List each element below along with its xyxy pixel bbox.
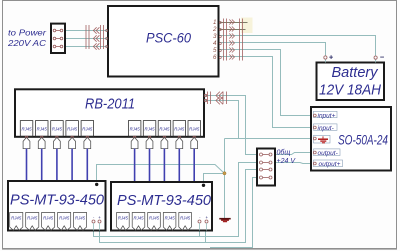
svg-text:RB-2011: RB-2011 bbox=[85, 97, 135, 113]
right PSU sub-boxes RJ45 bbox=[117, 213, 192, 231]
connector X1 4-row bbox=[257, 149, 275, 186]
wire: bus row4 bbox=[210, 178, 257, 248]
svg-text:3: 3 bbox=[213, 33, 217, 40]
RB bottom pins, plugs and cables group1 bbox=[23, 136, 91, 181]
wire: connector row2 to SO output+ bbox=[275, 163, 313, 164]
connector pair symbol right of PSC-60 bbox=[224, 19, 243, 61]
RB-2011 box A1 bbox=[15, 89, 204, 137]
svg-text:RJ45: RJ45 bbox=[27, 216, 38, 221]
svg-text:2: 2 bbox=[212, 26, 217, 33]
svg-text:+24 V: +24 V bbox=[277, 158, 297, 165]
RB-2011 RJ45 sub-boxes group1 bbox=[20, 121, 93, 137]
svg-text:RJ45: RJ45 bbox=[144, 127, 155, 132]
svg-text:RJ45: RJ45 bbox=[75, 216, 86, 221]
stub area tint bbox=[241, 18, 253, 34]
svg-text:RJ45: RJ45 bbox=[174, 127, 185, 132]
svg-text:output-: output- bbox=[318, 150, 339, 157]
svg-text:0бщ: 0бщ bbox=[277, 149, 291, 157]
wire: chassis net horizontal to SO pin3 bbox=[225, 138, 313, 140]
wire: RB-2011 pin2 to chassis net bbox=[204, 101, 239, 139]
wire: 220V feed to PSC-60 bbox=[63, 31, 108, 47]
SO-50A-24 box U2 bbox=[311, 107, 391, 171]
svg-text:RJ45: RJ45 bbox=[149, 216, 160, 221]
right PSU top pin dot bbox=[202, 184, 205, 187]
PSC-60 right pins bbox=[219, 22, 221, 59]
svg-text:to Power: to Power bbox=[8, 28, 46, 37]
wire: PSC-60 pin1 stub bbox=[219, 22, 248, 24]
svg-text:RJ45: RJ45 bbox=[159, 127, 170, 132]
wire: connector row1 to SO output- bbox=[275, 153, 313, 155]
chassis ground symbol bbox=[219, 219, 230, 222]
Battery box GB1 bbox=[317, 63, 385, 101]
svg-text:5: 5 bbox=[213, 47, 217, 54]
svg-text:+: + bbox=[98, 215, 101, 220]
svg-text:RJ45: RJ45 bbox=[67, 127, 78, 132]
connector J1 3-pin 220V bbox=[51, 24, 65, 53]
svg-text:input-: input- bbox=[318, 125, 335, 132]
svg-text:1: 1 bbox=[213, 19, 216, 26]
wire: PSC-60 pin2 stub bbox=[219, 29, 246, 31]
PSC-60 left pins bbox=[106, 30, 108, 48]
svg-text:PSC-60: PSC-60 bbox=[146, 31, 191, 46]
wire: left PS-MT top pin to ground junction bbox=[97, 165, 225, 182]
svg-text:PS-MT-93-450: PS-MT-93-450 bbox=[117, 192, 212, 209]
RB bottom pins, plugs and cables group2 bbox=[131, 136, 197, 182]
PS-MT-93-450 box left PSU1 bbox=[8, 181, 106, 231]
connector pair symbol left of PSC-60 bbox=[86, 25, 104, 50]
svg-text:+: + bbox=[205, 215, 208, 220]
junction ground node bbox=[223, 172, 226, 175]
left PSU top pin dot bbox=[95, 183, 98, 186]
label to Power 220V AC bbox=[7, 28, 47, 48]
RJ45 labels RB bbox=[21, 127, 199, 132]
svg-text:RJ45: RJ45 bbox=[82, 127, 93, 132]
svg-text:SO-50A-24: SO-50A-24 bbox=[338, 132, 388, 148]
wire: chassis net vertical to ground bbox=[224, 139, 226, 219]
RB-2011 RJ45 sub-boxes group2 bbox=[128, 121, 200, 137]
SO pins bbox=[313, 114, 316, 165]
battery pin stubs bbox=[325, 59, 375, 62]
battery pin plus bbox=[324, 56, 327, 59]
svg-text:output+: output+ bbox=[319, 161, 341, 168]
PS-MT-93-450 box right PSU2 bbox=[111, 182, 212, 231]
battery pin minus bbox=[374, 56, 377, 59]
SO chassis mini symbol bbox=[318, 136, 328, 142]
svg-text:RJ45: RJ45 bbox=[37, 127, 48, 132]
wire: right PS-MT top pin to ground junction bbox=[204, 174, 225, 182]
RB-2011 right pins bbox=[204, 94, 206, 101]
svg-text:RJ45: RJ45 bbox=[52, 127, 63, 132]
wire: PSC-60 pin5 to SO input+ bbox=[219, 50, 313, 116]
svg-text:RJ45: RJ45 bbox=[130, 127, 141, 132]
wire: bus row3 to PS-MT minus pins bbox=[100, 170, 258, 243]
svg-text:4: 4 bbox=[213, 40, 217, 47]
SO pin label boxes bbox=[314, 111, 343, 166]
wire: PSC-60 pin6 to SO input- bbox=[219, 57, 313, 128]
wire: PSC-60 pin3 to battery minus bbox=[219, 36, 376, 57]
connector pair symbol right of RB-2011 bbox=[208, 92, 227, 105]
PSC-60 pin numbers bbox=[212, 19, 217, 61]
svg-text:RJ45: RJ45 bbox=[189, 127, 200, 132]
svg-text:RJ45: RJ45 bbox=[180, 216, 191, 221]
right PSU output pins bbox=[198, 220, 208, 231]
svg-text:PS-MT-93-450: PS-MT-93-450 bbox=[10, 192, 105, 209]
left PSU output pins bbox=[92, 220, 101, 231]
svg-text:RJ45: RJ45 bbox=[21, 127, 32, 132]
wire: RB-2011 pin1 to connector row1 bbox=[204, 96, 257, 155]
svg-text:6: 6 bbox=[213, 54, 217, 61]
svg-text:+: + bbox=[329, 52, 334, 61]
wire: PSC-60 pin4 to battery plus bbox=[219, 43, 326, 57]
left PSU sub-boxes RJ45 bbox=[10, 213, 87, 231]
PSC-60 box U1 bbox=[108, 6, 219, 77]
svg-text:RJ45: RJ45 bbox=[118, 216, 129, 221]
wire: +24V bus row2 to PS-MT plus pins bbox=[94, 163, 258, 237]
svg-text:220V AC: 220V AC bbox=[7, 39, 46, 48]
svg-text:RJ45: RJ45 bbox=[43, 216, 54, 221]
svg-text:RJ45: RJ45 bbox=[11, 216, 22, 221]
svg-text:input+: input+ bbox=[318, 112, 336, 119]
svg-text:RJ45: RJ45 bbox=[59, 216, 70, 221]
svg-text:Battery: Battery bbox=[332, 64, 379, 81]
svg-text:12V 18AH: 12V 18AH bbox=[319, 82, 381, 99]
svg-text:RJ45: RJ45 bbox=[133, 216, 144, 221]
svg-text:RJ45: RJ45 bbox=[165, 216, 176, 221]
svg-text:−: − bbox=[380, 52, 385, 61]
